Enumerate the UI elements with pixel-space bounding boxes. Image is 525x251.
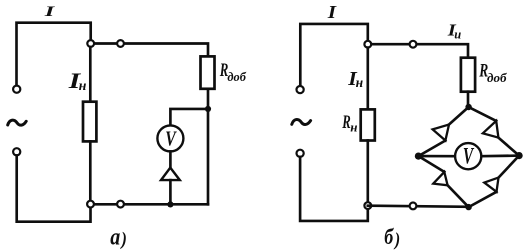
svg-text:): ) [120,229,127,250]
diode VD (a) [161,168,180,181]
wire meter branch top (a) [170,109,208,126]
svg-text:доб: доб [227,69,246,84]
terminal plug bottom (b) [410,203,417,210]
terminal plug bottom-right (a) [117,201,124,208]
diode bridge lower-right (b) [484,178,498,192]
svg-text:н: н [350,119,357,134]
terminal source upper (a) [13,86,20,93]
wire source bottom loop (b) [300,157,368,221]
node bridge top (b) [465,104,471,110]
resistor Rdob (b) [461,58,475,92]
svg-text:V: V [165,127,177,151]
terminal source lower (a) [13,148,20,155]
terminal plug bottom-left (a) [87,201,94,208]
svg-text:): ) [393,229,400,250]
wire load branch lower (b) [366,141,369,203]
wire load branch upper (a) [89,47,92,102]
diode bridge lower-left (b) [433,172,447,185]
wire source top loop (a) [17,23,91,86]
wire voltmeter to diode (a) [169,151,172,167]
resistor Rdob (a) [201,56,215,88]
junction below Rdob (a) [205,106,211,112]
svg-text:н: н [79,79,87,94]
svg-text:а: а [110,224,120,251]
AC source tilde (b) [292,119,311,124]
svg-text:н: н [356,75,364,90]
resistor Rn (b) [361,109,375,140]
AC source tilde (a) [8,120,27,125]
junction meter branch bottom (a) [167,201,173,207]
wire right branch vertical (a) [207,89,210,205]
voltmeter V (a) [157,125,183,151]
wire Rdob to bridge top (b) [467,92,470,106]
svg-text:доб: доб [487,70,507,85]
svg-text:V: V [463,144,474,169]
terminal plug top (b) [410,41,417,48]
voltmeter V (b) [455,143,481,169]
diode bridge upper-right (b) [483,121,499,138]
wire terminal row top (a) [91,44,208,57]
node bridge bottom (b) [465,204,471,210]
svg-text:I: I [327,2,338,22]
wire load branch upper (b) [366,48,369,110]
wire diode to bottom (a) [169,180,172,204]
wire terminal row bottom (b) [368,206,469,207]
wire source bottom loop (a) [17,156,91,222]
terminal plug top-left (a) [87,40,94,47]
wire bridge middle right (b) [481,154,519,157]
node bridge right (b) [516,152,523,159]
wire source top loop (b) [300,24,368,86]
svg-text:б: б [384,224,394,249]
resistor load (a) [83,102,96,142]
terminal source upper (b) [297,86,304,93]
wire load branch lower (a) [89,141,92,200]
wire bridge middle left (b) [418,155,455,158]
wire terminal row bottom (a) [91,203,209,206]
terminal junction top (b) [364,41,371,48]
wire bridge edge T-R (b) [469,107,519,156]
diode bridge upper-left (b) [433,125,449,141]
terminal junction bottom (b) [364,202,371,209]
wire terminal row top (b) [368,44,468,58]
wire bridge edge L-B (b) [418,156,468,207]
svg-text:и: и [454,27,461,41]
wire bridge edge B-R (b) [469,156,519,208]
terminal plug top-right (a) [117,40,124,47]
terminal source lower (b) [297,150,304,157]
wire bridge edge T-L (b) [418,107,468,156]
node bridge left (b) [415,153,422,160]
